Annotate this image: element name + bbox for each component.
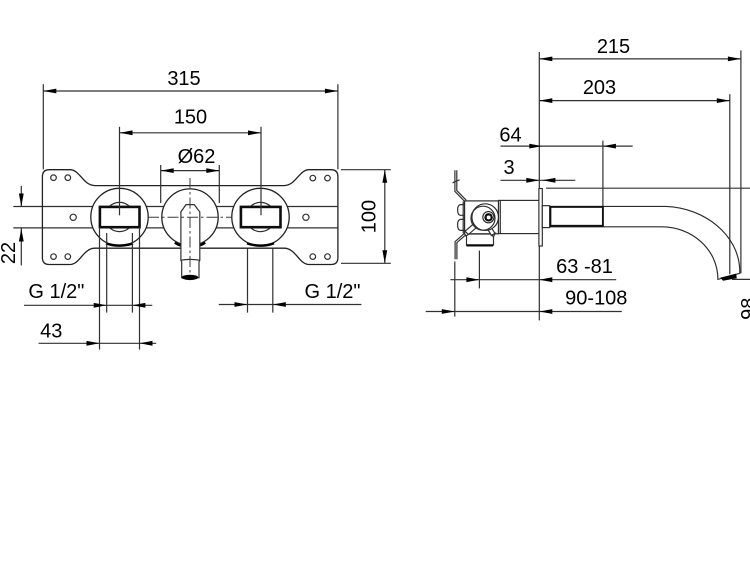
dim 203 line [539, 100, 730, 102]
valve block left inner line [462, 202, 464, 234]
pilot hole left [70, 214, 76, 220]
svg-text:215: 215 [597, 36, 630, 58]
channel inner lower line [91, 225, 286, 227]
dim 315 extension left [42, 84, 44, 169]
dim 215 extension right [740, 50, 742, 273]
dim d62 line [161, 170, 220, 172]
svg-text:64: 64 [499, 124, 521, 146]
svg-text:100: 100 [359, 200, 381, 233]
svg-text:203: 203 [583, 77, 616, 99]
wall face line [538, 52, 540, 320]
dim 100 extension bottom [341, 262, 391, 264]
dim 315 line [43, 90, 338, 92]
dim 203 arrow left [539, 98, 552, 103]
dim 43 arrow right [140, 341, 153, 346]
dim 100 line [384, 170, 386, 264]
valve left inner thread line left [106, 233, 108, 313]
dim 43 arrow left [87, 341, 100, 346]
dim 22 arrow lower [19, 229, 24, 242]
dim 98 extension top [546, 187, 750, 189]
cartridge offset circle [471, 206, 495, 230]
dim 64 arrow right [603, 144, 616, 149]
dim d62 extension right [218, 165, 220, 203]
dim 63-81 arrow left [466, 277, 479, 282]
left valve circle [91, 188, 148, 245]
spout sleeve section [550, 207, 603, 226]
plate channel lines over plate [43, 206, 338, 208]
screw boss upper [458, 205, 465, 216]
dim 150 arrow right [248, 130, 261, 135]
right valve circle [232, 188, 289, 245]
spout tip dark wedge [720, 274, 737, 281]
dim 63-81 arrow right [539, 277, 552, 282]
right handle rectangle [241, 207, 281, 227]
dim 100 extension top [341, 169, 391, 171]
svg-text:150: 150 [174, 106, 207, 128]
dim 98 extension bottom [732, 278, 750, 280]
vertical centerline dash-dot [189, 178, 191, 275]
mounting plate outline [42, 170, 338, 265]
channel upper line [13, 206, 338, 208]
spout tube chamfer line [181, 258, 200, 261]
lever arm right tip facet [492, 233, 496, 236]
dim 215 arrow right [728, 57, 741, 62]
svg-text:22: 22 [0, 242, 20, 264]
spout tube body [181, 205, 200, 278]
dim 315 extension right [337, 84, 339, 169]
dim 90-108 arrow left [442, 309, 455, 314]
screw hole top-left 2 [65, 175, 71, 181]
svg-text:43: 43 [40, 321, 62, 343]
dim 63-81 line [450, 279, 616, 281]
wall bracket strip line a [455, 170, 465, 259]
dim 215 arrow left [539, 57, 552, 62]
dim 90-108 arrow right [539, 309, 552, 314]
dim 64 line [501, 145, 633, 147]
screw hole top-right 2 [325, 175, 331, 181]
escutcheon flange [539, 189, 542, 247]
cartridge outer circle [472, 204, 499, 231]
left valve inner boss circle [105, 202, 134, 231]
dim G12 left arrow b [132, 303, 145, 308]
dim G12 left arrow a [94, 303, 107, 308]
dim 43 line [39, 342, 157, 344]
spout outlet dark ellipse [182, 275, 199, 280]
center spout circle [162, 189, 218, 245]
screw hole bottom-right 2 [325, 254, 331, 260]
cartridge screw ring [486, 214, 492, 220]
dim 150 line [120, 132, 262, 134]
spout body [542, 206, 740, 279]
body cylinder [499, 200, 540, 233]
dim 64 extension [602, 141, 604, 207]
valve left inner thread line right [131, 233, 133, 313]
dim G12 left line [24, 304, 152, 306]
svg-text:G 1/2": G 1/2" [28, 281, 84, 303]
dim d62 arrow right [206, 168, 219, 173]
dim 150 extension left [119, 127, 121, 216]
dim 22 arrow upper [19, 194, 24, 207]
body cylinder joint line [499, 200, 501, 233]
lever arm left bar [465, 224, 477, 234]
left handle rectangle [100, 207, 140, 227]
screw boss lower [458, 219, 465, 230]
svg-text:315: 315 [167, 68, 200, 90]
screw hole bottom-left 1 [51, 254, 57, 260]
dim d62 extension left [160, 165, 162, 203]
dim 3 arrow left [526, 178, 539, 183]
dim 315 arrow left [43, 89, 56, 94]
dim d62 arrow left [161, 168, 174, 173]
dim 203 extension right [729, 94, 731, 274]
lever foot block [467, 234, 494, 245]
right valve inner boss circle [246, 202, 275, 231]
screw hole top-right 1 [310, 175, 316, 181]
svg-text:63 -81: 63 -81 [556, 256, 613, 278]
cartridge stem circle [483, 212, 494, 223]
svg-text:90-108: 90-108 [565, 287, 627, 309]
wall bracket strip line b [457, 170, 466, 259]
left valve dark bottom arc [106, 243, 133, 245]
dim G12 right arrow b [273, 302, 286, 307]
right valve dark bottom arc [247, 243, 274, 245]
dim 90-108 line [426, 311, 622, 313]
valve left outer stud line right [139, 227, 141, 349]
dim 315 arrow right [325, 89, 338, 94]
svg-text:G 1/2": G 1/2" [304, 281, 360, 303]
valve right thread line right [272, 248, 274, 312]
dim 22 line upper [20, 186, 22, 207]
dim 150 arrow left [120, 130, 133, 135]
screw hole top-left 1 [51, 175, 57, 181]
svg-text:98: 98 [738, 298, 750, 320]
valve left outer stud line left [99, 227, 101, 349]
wall bracket break tick [453, 180, 460, 183]
bracket lower extension line [454, 262, 456, 317]
svg-text:Ø62: Ø62 [178, 146, 216, 168]
pilot hole right [303, 214, 309, 220]
horizontal centerline dash-dot [148, 216, 233, 218]
screw hole bottom-left 2 [65, 254, 71, 260]
svg-text:3: 3 [503, 157, 514, 179]
dim 3 line [501, 179, 576, 181]
screw hole bottom-right 1 [310, 254, 316, 260]
valve right thread line left [247, 248, 249, 312]
dim 63-81 extension [478, 251, 480, 289]
dim 100 arrow bottom [382, 250, 387, 263]
center spout dark arc right [199, 243, 205, 246]
dim 215 line [539, 58, 741, 60]
lever arm left tip facet [464, 231, 468, 236]
dim 64 arrow left [529, 144, 542, 149]
dim G12 right arrow a [235, 302, 248, 307]
foot dark base edge [467, 244, 493, 246]
dim 22 line lower [20, 229, 22, 266]
channel lower line [13, 227, 338, 229]
valve block body [465, 201, 499, 234]
dim 203 arrow right [717, 98, 730, 103]
lever arm right bar [486, 225, 495, 235]
dim G12 right line [219, 304, 362, 306]
spout root ring [542, 206, 549, 228]
dim 3 arrow right [542, 178, 555, 183]
dim 150 extension right [260, 127, 262, 216]
center spout dark arc left [175, 243, 181, 246]
dim 100 arrow top [382, 170, 387, 183]
